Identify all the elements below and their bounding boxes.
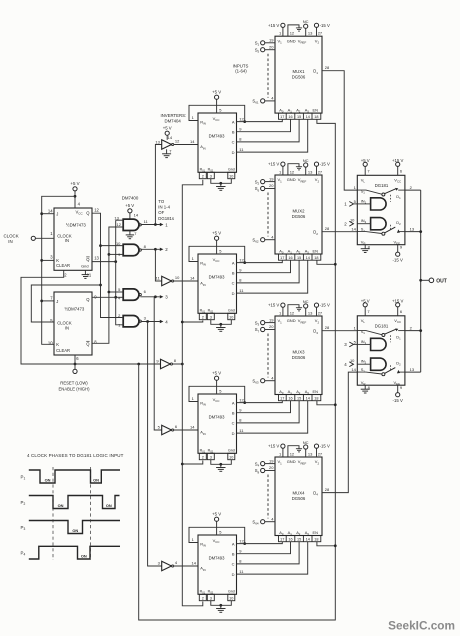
svg-text:+5 V: +5 V xyxy=(125,203,134,208)
ground U11 pin 12 GND xyxy=(288,305,302,316)
power -15V U9 pin 27 xyxy=(314,23,330,36)
svg-text:+5 V: +5 V xyxy=(212,512,221,517)
ground U9 pin 12 GND xyxy=(288,25,302,36)
svg-text:27: 27 xyxy=(318,451,323,456)
svg-text:DG181: DG181 xyxy=(375,324,389,329)
svg-text:14: 14 xyxy=(306,256,310,260)
svg-text:18: 18 xyxy=(314,115,318,119)
power +5V U7 pin 5 xyxy=(212,371,222,394)
wire U12 D output pin 28 xyxy=(325,487,330,492)
terminal S4 input U12 xyxy=(255,458,275,467)
svg-text:+15 V: +15 V xyxy=(268,444,279,449)
svg-text:2: 2 xyxy=(202,455,204,459)
waveform P1 xyxy=(21,470,121,483)
svg-text:GND: GND xyxy=(287,38,296,43)
analog mux U10 MUX2 DG506 xyxy=(275,175,322,255)
svg-text:C: C xyxy=(232,562,235,567)
wire U4d out to counter U8 Ain xyxy=(174,560,198,566)
svg-text:17: 17 xyxy=(280,396,284,400)
switch driver 2 U13 xyxy=(350,218,386,230)
wire U7 outputs A B C D xyxy=(239,397,244,433)
svg-text:27: 27 xyxy=(318,31,323,36)
counter U6 DM7493 xyxy=(198,254,237,314)
wire FF1 CLEAR to reset rail xyxy=(21,270,160,364)
terminal S8 input U12 xyxy=(255,465,275,474)
wire U8 outputs A B C D xyxy=(239,538,244,574)
svg-text:IN 1-4: IN 1-4 xyxy=(158,205,170,210)
svg-text:B: B xyxy=(232,271,235,276)
node phase 4 xyxy=(140,319,168,324)
svg-text:4 CLOCK PHASES TO DG181 LOGIC: 4 CLOCK PHASES TO DG181 LOGIC INPUT xyxy=(27,453,124,458)
ground U13 VR pin 8 xyxy=(361,244,371,252)
svg-text:C: C xyxy=(232,281,235,286)
svg-text:14: 14 xyxy=(306,396,310,400)
svg-text:DM7404: DM7404 xyxy=(165,118,182,123)
svg-text:14: 14 xyxy=(306,115,310,119)
dashed channels U9 xyxy=(267,54,269,98)
ground U12 pin 12 GND xyxy=(288,446,302,457)
svg-text:J: J xyxy=(56,211,58,216)
wire U4e out to reset bus xyxy=(173,363,184,366)
svg-text:14: 14 xyxy=(192,560,197,565)
power +5V FF1 xyxy=(70,181,79,208)
svg-text:20: 20 xyxy=(269,465,274,470)
wire U11 D output pin 28 xyxy=(325,325,330,330)
svg-text:17: 17 xyxy=(280,256,284,260)
svg-text:12: 12 xyxy=(290,451,295,456)
svg-text:DG506: DG506 xyxy=(292,214,306,219)
svg-text:MUX2: MUX2 xyxy=(293,209,306,214)
svg-text:19: 19 xyxy=(269,458,274,463)
svg-text:12: 12 xyxy=(239,257,244,262)
wire U7 A out to Bin loop xyxy=(189,386,246,404)
wire D2 MUX2 to DG181 S2 xyxy=(322,231,357,233)
wire Q1 to FF2 clock xyxy=(31,285,100,322)
svg-text:19: 19 xyxy=(269,317,274,322)
svg-text:D: D xyxy=(232,572,235,577)
svg-text:MUX1: MUX1 xyxy=(293,69,306,74)
node phase 3 xyxy=(140,295,168,300)
switch driver 1 U14 xyxy=(354,338,387,350)
wire enable rail junction xyxy=(137,363,140,366)
svg-text:13: 13 xyxy=(410,367,415,372)
ground U8 pins 3 and 10 xyxy=(211,601,232,613)
svg-text:20: 20 xyxy=(269,324,274,329)
svg-text:CLOCK: CLOCK xyxy=(4,233,19,238)
flip-flop U2 1/2 DM7473 xyxy=(48,292,97,361)
svg-text:27: 27 xyxy=(318,310,323,315)
svg-text:+15 V: +15 V xyxy=(268,162,279,167)
svg-text:DG506: DG506 xyxy=(292,74,306,79)
analog mux U11 MUX3 DG506 xyxy=(275,316,322,395)
svg-text:OF: OF xyxy=(158,210,164,215)
wire U5 A out to Bin loop xyxy=(189,105,246,123)
wire U6 outputs A B C D xyxy=(239,257,244,293)
wire U6 address bus to U10 xyxy=(237,260,308,293)
waveform P3 xyxy=(21,521,121,534)
terminal S63 input U11 xyxy=(252,375,275,384)
svg-text:NC: NC xyxy=(303,440,309,445)
svg-text:+5 V: +5 V xyxy=(212,90,221,95)
wire R01 reset bus xyxy=(181,180,203,606)
wire Q2bar bus xyxy=(92,227,123,343)
U7 bottom pins R01 R02 Gnd xyxy=(199,453,235,459)
svg-text:28: 28 xyxy=(325,325,330,330)
svg-text:12: 12 xyxy=(175,139,180,144)
node phase 2 xyxy=(140,247,168,252)
analog mux U9 MUX1 DG506 xyxy=(275,36,322,113)
wire U6 A out to Bin loop xyxy=(189,246,246,264)
svg-text:19: 19 xyxy=(269,38,274,43)
svg-text:20: 20 xyxy=(269,183,274,188)
svg-text:ENABLE (HIGH): ENABLE (HIGH) xyxy=(59,386,91,391)
ground U3 pin 7 xyxy=(126,231,138,239)
U9 bottom pin numbers xyxy=(279,113,321,119)
nand gate U3c xyxy=(118,287,146,300)
ground U14 VR pin 8 xyxy=(361,385,371,393)
svg-text:DM7493: DM7493 xyxy=(209,556,225,561)
terminal S5 input U9 xyxy=(255,44,275,53)
switch section 1 U14 xyxy=(354,325,413,342)
svg-text:-15 V: -15 V xyxy=(320,444,330,449)
svg-text:Gnd: Gnd xyxy=(228,590,235,594)
nand gate U3d xyxy=(118,313,146,327)
ground U7 pins 3 and 10 xyxy=(211,460,232,472)
svg-text:13: 13 xyxy=(308,169,313,174)
wire +5V to J K tie xyxy=(40,195,76,344)
ground FF1 pin 11 xyxy=(82,270,90,278)
wire phase2 to inverter U4b xyxy=(155,249,161,281)
svg-text:Gnd: Gnd xyxy=(81,264,88,269)
timing diagram title xyxy=(27,453,124,458)
power +5V U4 pin 14 xyxy=(163,126,172,140)
node NC U9 pin 13 VREF xyxy=(303,19,313,36)
svg-text:TO: TO xyxy=(158,199,165,204)
svg-text:12: 12 xyxy=(290,31,295,36)
ground U6 pins 3 and 10 xyxy=(211,320,232,332)
svg-text:16: 16 xyxy=(288,115,292,119)
node phase 1 xyxy=(140,222,168,227)
wire U4a out to counter U5 Ain xyxy=(174,139,198,145)
watermark SeekIC.com xyxy=(388,619,455,633)
svg-text:15: 15 xyxy=(297,115,301,119)
svg-text:13: 13 xyxy=(155,139,160,144)
svg-text:+5 V: +5 V xyxy=(163,126,172,131)
svg-text:MUX4: MUX4 xyxy=(293,490,306,495)
dashed channels U10 xyxy=(267,193,269,237)
input arrow 2 U13 xyxy=(344,221,353,226)
svg-text:ON: ON xyxy=(45,477,51,482)
svg-text:+15 V: +15 V xyxy=(268,303,279,308)
svg-text:2: 2 xyxy=(202,596,204,600)
analog switch U14 DG181 xyxy=(357,316,405,386)
counter U8 DM7493 xyxy=(198,535,237,595)
terminal S6 input U10 xyxy=(255,183,275,192)
svg-text:EN: EN xyxy=(313,389,319,394)
svg-text:GND: GND xyxy=(287,318,296,323)
power +5V U6 pin 5 xyxy=(212,231,222,254)
svg-text:GND: GND xyxy=(287,177,296,182)
svg-text:NC: NC xyxy=(303,158,309,163)
svg-text:Gnd: Gnd xyxy=(228,449,235,453)
U6 bottom pins R01 R02 Gnd xyxy=(199,313,235,319)
svg-text:13: 13 xyxy=(410,227,415,232)
svg-text:DG506: DG506 xyxy=(292,355,306,360)
svg-text:20: 20 xyxy=(269,44,274,49)
svg-text:DM7493: DM7493 xyxy=(209,415,225,420)
svg-text:28: 28 xyxy=(325,487,330,492)
node NC U11 pin 13 VREF xyxy=(303,299,313,316)
dashed channels U12 xyxy=(267,475,269,519)
wire U4b out to counter U6 Ain xyxy=(174,275,198,281)
svg-text:DM7493: DM7493 xyxy=(209,134,225,139)
svg-text:CLEAR: CLEAR xyxy=(56,263,70,268)
svg-text:ON: ON xyxy=(81,553,87,558)
waveform P4 xyxy=(21,546,121,559)
timing dashed cursor 2 xyxy=(90,467,92,560)
terminal S7 input U11 xyxy=(255,324,275,333)
terminal S62 input U10 xyxy=(252,234,275,243)
power -15V U14 VEE pin 9 xyxy=(393,385,403,403)
svg-text:DM7400: DM7400 xyxy=(122,195,139,200)
U5 bottom pins R01 R02 Gnd xyxy=(199,172,235,178)
input arrow 3 U14 xyxy=(344,342,357,347)
svg-text:ON: ON xyxy=(58,503,64,508)
svg-text:14: 14 xyxy=(351,367,356,372)
svg-text:DM7493: DM7493 xyxy=(209,275,225,280)
svg-text:12: 12 xyxy=(290,169,295,174)
wire Q1bar bus xyxy=(92,220,123,325)
svg-text:RESET (LOW): RESET (LOW) xyxy=(60,381,88,386)
svg-text:IN: IN xyxy=(65,325,69,330)
wire output bus xyxy=(405,190,422,372)
power +5V U3 pin 14 xyxy=(125,203,139,220)
power +15V U9 pin 1 xyxy=(268,23,285,36)
svg-text:10: 10 xyxy=(229,455,233,459)
svg-text:SeekIC.com: SeekIC.com xyxy=(388,619,455,633)
note INVERTERS DM7404 xyxy=(161,113,187,123)
svg-text:IN: IN xyxy=(8,239,12,244)
wire U9 D output pin 28 xyxy=(325,65,330,70)
terminal S64 input U12 xyxy=(252,516,275,525)
svg-text:12: 12 xyxy=(239,397,244,402)
svg-text:C: C xyxy=(232,140,235,145)
svg-text:+5 V: +5 V xyxy=(70,181,79,186)
svg-text:14: 14 xyxy=(306,537,310,541)
svg-text:DG506: DG506 xyxy=(292,496,306,501)
nand gate U3b xyxy=(116,241,147,257)
svg-text:13: 13 xyxy=(308,31,313,36)
terminal CLOCK IN xyxy=(4,233,55,244)
wire phase3 to inverter U4c xyxy=(154,297,162,430)
svg-text:GND: GND xyxy=(287,459,296,464)
U10 bottom pin numbers xyxy=(279,254,321,260)
svg-text:12: 12 xyxy=(239,116,244,121)
svg-text:17: 17 xyxy=(280,115,284,119)
input arrow 4 U14 xyxy=(344,362,353,367)
svg-text:16: 16 xyxy=(288,256,292,260)
wire phase1 to inverter U4a xyxy=(155,145,161,225)
svg-text:B: B xyxy=(232,130,235,135)
svg-text:C: C xyxy=(232,421,235,426)
svg-text:2: 2 xyxy=(202,174,204,178)
svg-text:-15 V: -15 V xyxy=(320,23,330,28)
switch section 2 U14 xyxy=(351,365,414,375)
svg-text:NC: NC xyxy=(303,19,309,24)
inverter U4a xyxy=(155,135,180,154)
svg-text:10: 10 xyxy=(229,315,233,319)
svg-text:-15 V: -15 V xyxy=(320,162,330,167)
ground U5 pins 3 and 10 xyxy=(211,179,232,191)
timing dashed cursor 1 xyxy=(52,467,54,560)
svg-text:19: 19 xyxy=(269,176,274,181)
svg-text:14: 14 xyxy=(190,275,195,280)
svg-text:EN: EN xyxy=(313,248,319,253)
svg-text:DG181s: DG181s xyxy=(158,216,174,221)
input arrow 1 U13 xyxy=(344,202,357,207)
svg-text:18: 18 xyxy=(314,256,318,260)
note INPUTS 1-64 xyxy=(233,63,249,73)
switch section 1 U13 xyxy=(354,185,413,202)
svg-text:10: 10 xyxy=(48,341,53,346)
switch driver 2 U14 xyxy=(350,358,386,370)
svg-text:14: 14 xyxy=(190,139,195,144)
counter U5 DM7493 xyxy=(198,113,237,173)
svg-text:10: 10 xyxy=(229,596,233,600)
svg-text:13: 13 xyxy=(308,451,313,456)
wire D1 MUX1 to DG181 S1 xyxy=(322,71,357,190)
svg-text:ON: ON xyxy=(72,528,78,533)
svg-text:B: B xyxy=(232,411,235,416)
svg-text:Gnd: Gnd xyxy=(228,168,235,172)
wire U5 address bus to U9 xyxy=(237,119,308,152)
svg-text:NC: NC xyxy=(303,299,309,304)
svg-text:+5 V: +5 V xyxy=(212,231,221,236)
inverter U4e enable xyxy=(156,358,176,369)
svg-text:10: 10 xyxy=(175,275,180,280)
svg-text:MUX3: MUX3 xyxy=(293,349,306,354)
svg-text:12: 12 xyxy=(117,222,122,227)
svg-text:A: A xyxy=(232,119,235,124)
wire U8 address bus to U12 xyxy=(237,542,308,574)
svg-text:A: A xyxy=(232,541,235,546)
svg-text:15: 15 xyxy=(297,256,301,260)
power +5V U13 VL pin 7 xyxy=(361,158,371,175)
svg-text:3: 3 xyxy=(210,174,212,178)
wire phase4 to inverter U4d xyxy=(148,322,162,567)
terminal RESET ENABLE xyxy=(59,355,91,391)
svg-text:+5 V: +5 V xyxy=(212,371,221,376)
svg-text:18: 18 xyxy=(314,396,318,400)
analog mux U12 MUX4 DG506 xyxy=(275,457,322,536)
svg-text:Gnd: Gnd xyxy=(228,309,235,313)
wire U8 A out to Bin loop xyxy=(189,527,246,545)
svg-text:12: 12 xyxy=(239,538,244,543)
svg-text:28: 28 xyxy=(325,226,330,231)
wire Q2 to gate U3c xyxy=(92,296,123,298)
svg-text:ON: ON xyxy=(93,477,99,482)
svg-text:12: 12 xyxy=(290,310,295,315)
svg-text:16: 16 xyxy=(288,396,292,400)
terminal S61 input U9 xyxy=(252,96,275,105)
power +5V U8 pin 5 xyxy=(212,512,222,535)
switch driver 1 U13 xyxy=(354,198,387,210)
svg-text:EN: EN xyxy=(313,108,319,113)
svg-text:15: 15 xyxy=(297,396,301,400)
svg-text:(1-64): (1-64) xyxy=(235,68,247,73)
note TO IN 1-4 OF DG181s xyxy=(158,199,174,221)
terminal S3 input U11 xyxy=(255,317,275,326)
svg-text:A: A xyxy=(232,400,235,405)
ground U10 pin 12 GND xyxy=(288,164,302,175)
wire D3 MUX3 to DG181-2 S1 xyxy=(322,330,357,332)
terminal S2 input U10 xyxy=(255,176,275,185)
counter U7 DM7493 xyxy=(198,394,237,454)
svg-text:-15 V: -15 V xyxy=(393,398,403,403)
svg-text:13: 13 xyxy=(94,255,99,260)
svg-text:15: 15 xyxy=(297,537,301,541)
svg-text:3: 3 xyxy=(210,455,212,459)
svg-text:D: D xyxy=(232,291,235,296)
svg-text:28: 28 xyxy=(325,65,330,70)
nand gate U3a xyxy=(114,215,148,230)
svg-text:K: K xyxy=(56,258,59,263)
svg-text:2: 2 xyxy=(202,315,204,319)
svg-text:3: 3 xyxy=(210,596,212,600)
svg-text:B: B xyxy=(232,552,235,557)
svg-text:A: A xyxy=(232,260,235,265)
ground U4 pin 7 xyxy=(162,149,171,157)
svg-text:16: 16 xyxy=(288,537,292,541)
svg-text:13: 13 xyxy=(308,310,313,315)
svg-text:ON: ON xyxy=(106,503,112,508)
svg-text:½DM7473: ½DM7473 xyxy=(65,306,85,311)
svg-text:12: 12 xyxy=(94,208,99,213)
wire U4c out to counter U7 Ain xyxy=(174,424,198,430)
quad NAND U3 DM7400 label xyxy=(122,195,139,200)
analog switch U13 DG181 xyxy=(357,175,405,245)
power -15V U13 VEE pin 9 xyxy=(393,244,403,262)
svg-text:-15 V: -15 V xyxy=(393,257,403,262)
inverter U4d xyxy=(158,560,178,571)
svg-text:14: 14 xyxy=(351,227,356,232)
svg-text:EN: EN xyxy=(313,530,319,535)
svg-text:14: 14 xyxy=(48,208,53,213)
terminal OUT xyxy=(419,278,446,284)
U12 bottom pin numbers xyxy=(279,536,321,542)
power -15V U11 pin 27 xyxy=(314,303,330,316)
U11 bottom pin numbers xyxy=(279,395,321,401)
wire EN bus xyxy=(139,119,337,620)
svg-text:3: 3 xyxy=(210,315,212,319)
svg-text:14: 14 xyxy=(168,135,173,140)
waveform P2 xyxy=(21,496,120,509)
power +5V U5 pin 5 xyxy=(212,90,222,113)
wire U7 address bus to U11 xyxy=(237,401,308,433)
wire U5 outputs A B C D xyxy=(239,116,244,151)
power +15V U12 pin 1 xyxy=(268,444,285,457)
power +15V U10 pin 1 xyxy=(268,162,285,175)
svg-text:10: 10 xyxy=(229,174,233,178)
svg-text:DG181: DG181 xyxy=(375,183,389,188)
svg-text:J: J xyxy=(56,299,58,304)
svg-text:-15 V: -15 V xyxy=(320,303,330,308)
power +15V U11 pin 1 xyxy=(268,303,285,316)
wire D4 MUX4 to DG181-2 S2 xyxy=(322,372,357,493)
svg-text:18: 18 xyxy=(314,537,318,541)
inverter U4b xyxy=(156,275,180,286)
power +15V U13 VCC pin 6 xyxy=(392,158,403,175)
